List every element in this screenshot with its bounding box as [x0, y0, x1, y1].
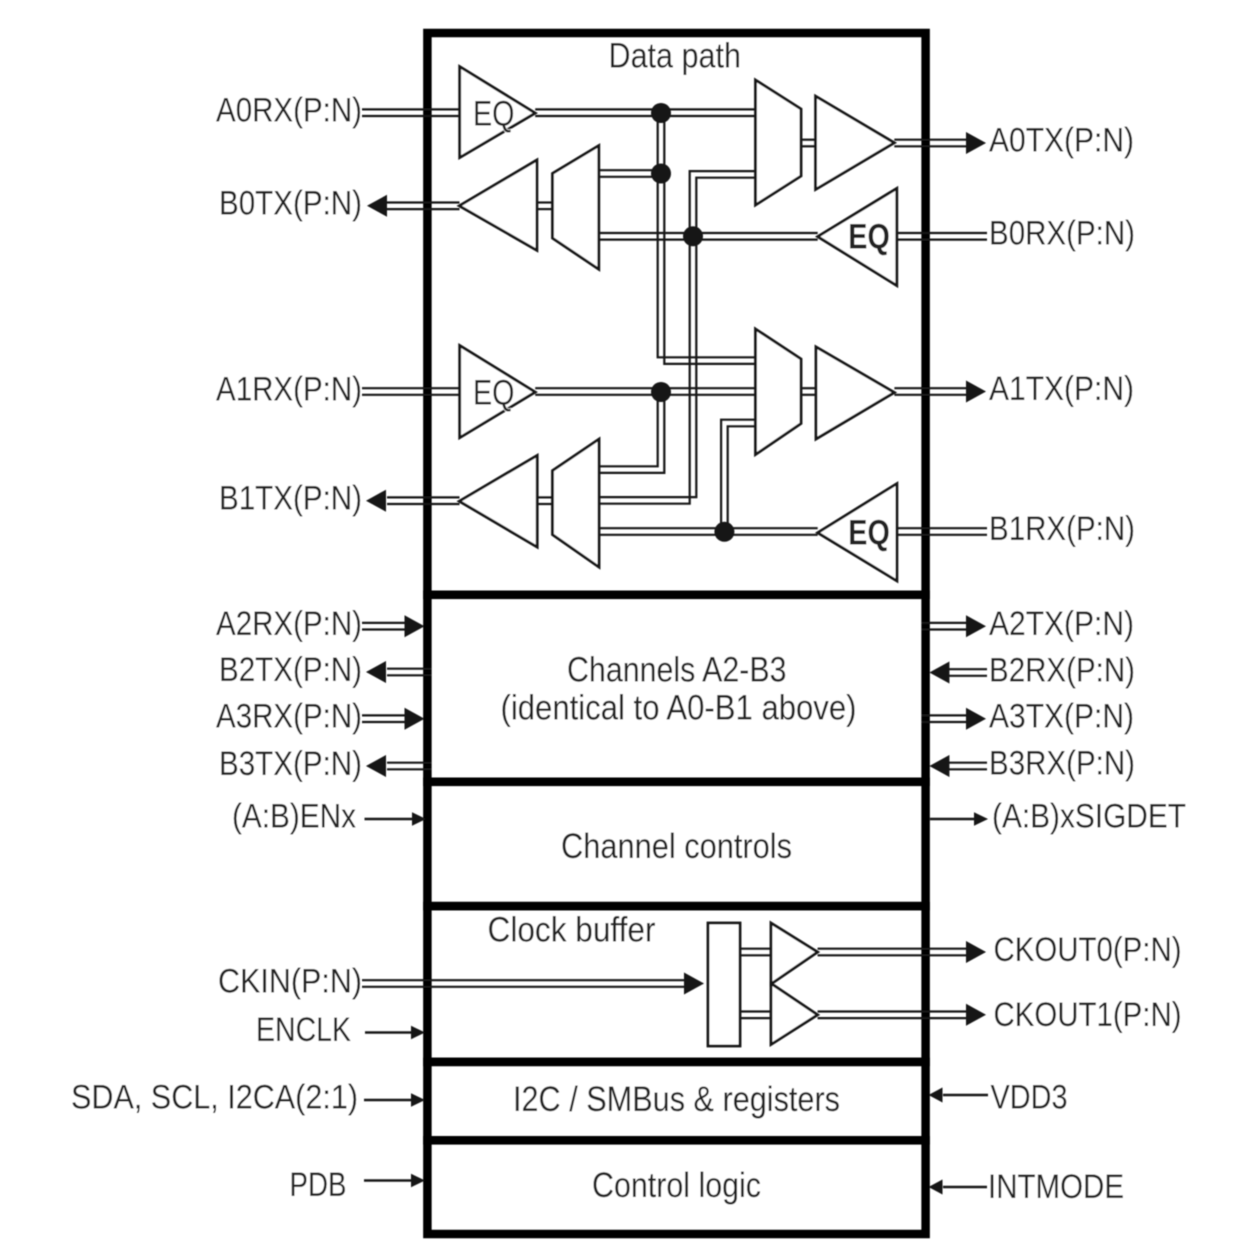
svg-text:A1RX(P:N): A1RX(P:N) [216, 371, 362, 409]
arrowhead B3RX into box [929, 755, 949, 777]
wire CKOUT1 output pair [818, 1012, 966, 1019]
arrowhead B0TX [367, 195, 387, 217]
label: Data path title [609, 37, 742, 76]
label: VDD3 [991, 1079, 1068, 1117]
wire B1RX input pair [897, 528, 987, 535]
label: Clock buffer title [488, 911, 656, 950]
label: SDA SCL I2CA(2:1) [71, 1079, 358, 1117]
label: INTMODE [988, 1168, 1124, 1206]
node: junction B1RX branch [714, 522, 734, 542]
label: Channel controls title [561, 827, 792, 866]
wire CKIN input pair [362, 980, 685, 987]
svg-text:Channels A2-B3: Channels A2-B3 [567, 651, 787, 690]
wire A1 EQ output pair to A1 mux middle input [535, 388, 755, 395]
label: identical-to note [501, 689, 857, 728]
amplifier EQ B1 (U4) [818, 484, 897, 581]
block: Channel controls box [427, 782, 925, 906]
amplifier EQ A1 (U3) [460, 346, 536, 438]
label: EQ B0 [848, 218, 890, 257]
wire A1TX output pair [894, 388, 966, 395]
arrowhead B3TX [366, 755, 386, 777]
svg-text:(identical to A0-B1 above): (identical to A0-B1 above) [501, 689, 857, 728]
label: EQ B1 [848, 514, 890, 553]
svg-text:B3TX(P:N): B3TX(P:N) [219, 745, 362, 783]
label: A1RX(P:N) [216, 371, 362, 409]
svg-text:B1RX(P:N): B1RX(P:N) [989, 510, 1135, 548]
svg-text:VDD3: VDD3 [991, 1079, 1068, 1117]
arrowhead A3RX into box [405, 708, 425, 730]
svg-text:(A:B)ENx: (A:B)ENx [232, 798, 356, 836]
wire clock mux to CKOUT1 buffer [740, 1012, 772, 1019]
buffer B1 output driver [459, 455, 537, 547]
block: Channels A2-B3 box [427, 595, 925, 782]
block: Data path box [427, 33, 925, 595]
arrowhead CKIN into clock mux [684, 973, 704, 995]
svg-text:A0TX(P:N): A0TX(P:N) [989, 122, 1134, 160]
label: CKIN(P:N) [218, 963, 362, 1001]
svg-text:B1TX(P:N): B1TX(P:N) [219, 480, 362, 518]
wire B1TX output pair from buffer to arrow [387, 497, 460, 504]
svg-text:EQ: EQ [473, 95, 515, 134]
label: Channels A2-B3 title [567, 651, 787, 690]
arrowhead A1TX [966, 381, 986, 403]
node: junction A0RX branch [651, 103, 671, 123]
label: A3TX(P:N) [989, 698, 1134, 736]
wire (A:B)ENx control line [365, 818, 414, 821]
label: A2TX(P:N) [989, 605, 1134, 643]
wire VDD3 line [943, 1094, 988, 1097]
arrowhead A0TX [966, 132, 986, 154]
label: PDB [290, 1166, 347, 1204]
wire A2TX output pair [922, 623, 967, 630]
arrowhead B2TX [366, 661, 386, 683]
block: Control logic box [427, 1140, 925, 1234]
mux A0 (2:1 selector) [756, 80, 802, 205]
wire B1 mux output to B1 buffer [537, 497, 552, 504]
label: B0RX(P:N) [989, 215, 1135, 253]
label: A1TX(P:N) [989, 370, 1134, 408]
buffer A1 output driver [816, 347, 894, 439]
wire INTMODE line [943, 1186, 987, 1189]
svg-text:(A:B)xSIGDET: (A:B)xSIGDET [992, 798, 1186, 836]
wire B3RX input pair [949, 763, 987, 770]
arrowhead ENCLK [411, 1026, 425, 1040]
wire B0 mux output to B0 buffer [537, 203, 553, 210]
label: (A:B)xSIGDET [992, 798, 1186, 836]
svg-text:B0RX(P:N): B0RX(P:N) [989, 215, 1135, 253]
label: B2RX(P:N) [989, 652, 1135, 690]
wire ENCLK control line [365, 1031, 412, 1034]
wire pair B1RX cross-feed up to A1 mux bottom input [721, 420, 755, 532]
arrowhead A3TX [966, 708, 986, 730]
svg-text:CKIN(P:N): CKIN(P:N) [218, 963, 362, 1001]
svg-text:B0TX(P:N): B0TX(P:N) [219, 185, 362, 223]
label: (A:B)ENx [232, 798, 356, 836]
node: junction tap to B0 mux [651, 164, 671, 184]
svg-text:I2C / SMBus & registers: I2C / SMBus & registers [513, 1080, 840, 1119]
svg-text:EQ: EQ [473, 374, 515, 413]
svg-text:CKOUT0(P:N): CKOUT0(P:N) [994, 931, 1182, 969]
svg-text:Control logic: Control logic [592, 1166, 761, 1205]
label: A2RX(P:N) [216, 605, 362, 643]
mux A1 (3:1 selector) [756, 329, 802, 455]
svg-text:INTMODE: INTMODE [988, 1168, 1124, 1206]
label: CKOUT1(P:N) [994, 996, 1182, 1034]
svg-text:A0RX(P:N): A0RX(P:N) [216, 92, 362, 130]
arrowhead CKOUT0 [966, 941, 986, 963]
label: EQ A1 [473, 374, 515, 413]
label: I2C SMBus registers title [513, 1080, 840, 1119]
wire B3TX output pair [387, 763, 432, 770]
wire pair B0RX cross-feed up to A0 mux and down to B1 mux [599, 171, 756, 504]
svg-text:A2RX(P:N): A2RX(P:N) [216, 605, 362, 643]
mux B0 (2:1 selector) [553, 146, 599, 270]
arrowhead VDD3 into box [929, 1088, 943, 1103]
wire B2RX input pair [949, 669, 987, 676]
svg-text:SDA, SCL, I2CA(2:1): SDA, SCL, I2CA(2:1) [71, 1079, 358, 1117]
svg-text:B3RX(P:N): B3RX(P:N) [989, 745, 1135, 783]
label: A0RX(P:N) [216, 92, 362, 130]
label: Control logic title [592, 1166, 761, 1205]
wire A2RX input pair [362, 623, 406, 630]
arrowhead SDA SCL I2CA [411, 1093, 425, 1107]
wire A1RX input pair [362, 388, 460, 395]
svg-text:Channel controls: Channel controls [561, 827, 792, 866]
arrowhead INTMODE into box [929, 1180, 943, 1195]
arrowhead A2TX [966, 615, 986, 637]
wire A0 EQ output pair to A0 mux [535, 109, 755, 116]
block: Clock buffer box [427, 906, 925, 1062]
wire B0RX input pair [897, 233, 987, 240]
wire A3TX output pair [922, 715, 967, 722]
wire pair A0RX down-feed with corner to A1 mux top input [658, 113, 756, 364]
buffer B0 output driver [459, 160, 537, 250]
arrowhead A2RX into box [405, 615, 425, 637]
wire pair A1RX down-feed with corner to B1 mux top input [599, 392, 664, 473]
svg-text:A1TX(P:N): A1TX(P:N) [989, 370, 1134, 408]
svg-text:Data path: Data path [609, 37, 742, 76]
label: CKOUT0(P:N) [994, 931, 1182, 969]
mux B1 (3:1 selector) [553, 439, 600, 567]
wire A1 mux output to A1 buffer [801, 388, 817, 395]
svg-text:ENCLK: ENCLK [256, 1011, 351, 1049]
label: EQ A0 [473, 95, 515, 134]
svg-text:EQ: EQ [848, 514, 890, 553]
wire SDA SCL I2CA line [364, 1099, 412, 1102]
arrowhead PDB [411, 1174, 425, 1188]
wire B2TX output pair [387, 669, 432, 676]
wire PDB line [364, 1179, 412, 1182]
arrowhead B2RX into box [929, 662, 949, 684]
block: I2C/SMBus registers box [427, 1062, 925, 1140]
label: A3RX(P:N) [216, 698, 362, 736]
amplifier EQ B0 (U2) [818, 188, 897, 285]
wire B1RX EQ output pair to B1 mux bottom input [599, 528, 818, 535]
svg-text:B2TX(P:N): B2TX(P:N) [219, 651, 362, 689]
node: junction B0RX branch [683, 226, 703, 246]
wire A0RX input pair [362, 109, 460, 116]
wire (A:B)xSIGDET line [930, 818, 974, 821]
wire pair tap left to B0 mux top input [599, 170, 665, 177]
arrowhead CKOUT1 [966, 1004, 986, 1026]
svg-text:A3RX(P:N): A3RX(P:N) [216, 698, 362, 736]
label: B2TX(P:N) [219, 651, 362, 689]
label: B3RX(P:N) [989, 745, 1135, 783]
node: junction A1RX branch [651, 382, 671, 402]
svg-text:CKOUT1(P:N): CKOUT1(P:N) [994, 996, 1182, 1034]
buffer CKOUT1 driver [771, 984, 818, 1045]
arrowhead (A:B)xSIGDET [974, 812, 988, 826]
svg-text:EQ: EQ [848, 218, 890, 257]
label: B1RX(P:N) [989, 510, 1135, 548]
label: B3TX(P:N) [219, 745, 362, 783]
amplifier EQ A0 (U1) [460, 67, 536, 158]
svg-text:B2RX(P:N): B2RX(P:N) [989, 652, 1135, 690]
wire B0TX output pair from buffer to arrow [387, 203, 460, 210]
wire A0 mux output to A0 buffer [801, 140, 816, 147]
label: A0TX(P:N) [989, 122, 1134, 160]
wire A3RX input pair [362, 715, 406, 722]
arrowhead B1TX [366, 490, 386, 512]
buffer CKOUT0 driver [771, 923, 818, 984]
label: ENCLK [256, 1011, 351, 1049]
buffer A0 output driver [816, 96, 895, 189]
clock mux rectangle [708, 923, 740, 1046]
svg-text:A2TX(P:N): A2TX(P:N) [989, 605, 1134, 643]
wire B0RX EQ output pair to B0 mux bottom input [599, 233, 818, 240]
wire A0TX output pair [894, 140, 966, 147]
wire clock mux to CKOUT0 buffer [740, 949, 772, 956]
svg-text:Clock buffer: Clock buffer [488, 911, 656, 950]
label: B0TX(P:N) [219, 185, 362, 223]
label: B1TX(P:N) [219, 480, 362, 518]
svg-text:A3TX(P:N): A3TX(P:N) [989, 698, 1134, 736]
svg-text:PDB: PDB [290, 1166, 347, 1204]
wire CKOUT0 output pair [818, 949, 966, 956]
arrowhead (A:B)ENx [412, 812, 426, 826]
